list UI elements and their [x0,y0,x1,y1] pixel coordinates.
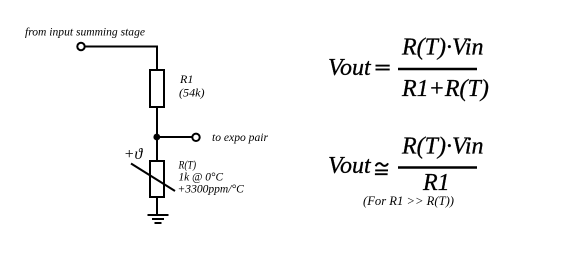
svg-text:R(T)·Vin: R(T)·Vin [401,134,484,160]
svg-text:(For R1 >> R(T)): (For R1 >> R(T)) [363,193,454,208]
svg-text:Vout: Vout [328,55,372,81]
svg-text:R(T)·Vin: R(T)·Vin [401,35,484,61]
svg-text:+ϑ: +ϑ [124,146,144,163]
svg-text:R1+R(T): R1+R(T) [401,76,489,102]
svg-text:+3300ppm/°C: +3300ppm/°C [178,181,245,195]
svg-text:(54k): (54k) [179,86,205,100]
svg-text:from input summing stage: from input summing stage [25,25,146,39]
svg-text:Vout: Vout [328,153,372,179]
svg-text:to expo pair: to expo pair [212,130,268,144]
svg-text:R1: R1 [179,72,193,86]
